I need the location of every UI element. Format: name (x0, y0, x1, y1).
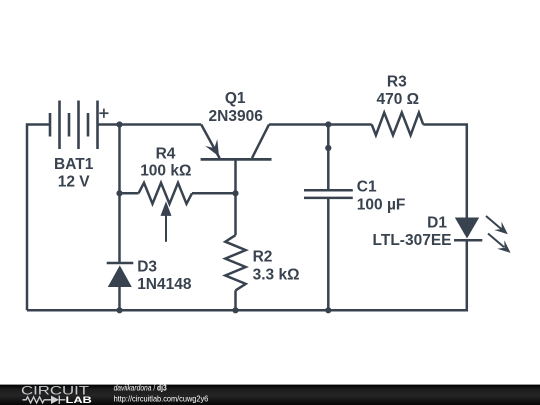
wire C1 bottom lead (327, 198, 330, 310)
svg-text:470 Ω: 470 Ω (376, 91, 419, 108)
svg-text:3.3 kΩ: 3.3 kΩ (253, 267, 300, 284)
svg-text:12 V: 12 V (58, 174, 91, 191)
svg-text:1N4148: 1N4148 (137, 276, 192, 293)
svg-text:R3: R3 (387, 73, 407, 90)
resistor R4 body (139, 183, 193, 204)
svg-text:R4: R4 (156, 146, 176, 163)
svg-text:C1: C1 (357, 179, 377, 196)
wire D3 anode to bottom rail (118, 287, 121, 310)
svg-text:100 kΩ: 100 kΩ (140, 162, 191, 179)
wire C1 top lead (327, 125, 330, 191)
wire battery positive to Q1 emitter (98, 123, 202, 126)
battery plus sign (99, 109, 108, 118)
node junction D3 bottom (116, 307, 122, 313)
wire junction down to R4/D3 node (118, 125, 121, 194)
node dot on C1 stem (325, 145, 331, 151)
svg-text:LAB: LAB (66, 395, 93, 405)
potentiometer wiper arrow R4 (161, 201, 172, 242)
svg-text:daviikardona / dj3: daviikardona / dj3 (114, 383, 167, 393)
svg-text:100 µF: 100 µF (357, 197, 406, 214)
node junction C1 top (325, 121, 331, 127)
node junction R2 bottom (232, 307, 238, 313)
wire left side (battery negative to bottom rail) (27, 125, 50, 311)
capacitor C1 (304, 190, 353, 198)
battery BAT1 (50, 101, 98, 150)
footer bar (0, 385, 540, 405)
wire Q1 collector to R3 (269, 123, 372, 126)
svg-text:BAT1: BAT1 (54, 156, 94, 173)
node junction base/R4/R2 (232, 190, 238, 196)
resistor R2 body (225, 235, 245, 290)
wire R3 to top-right corner and down to LED (423, 125, 467, 218)
wire R2 top lead (234, 193, 237, 235)
LED D1 (454, 218, 482, 241)
wire D3 cathode up to node (118, 193, 121, 263)
LED light arrow 1 (486, 216, 508, 234)
resistor R3 body (372, 113, 424, 136)
node junction R4 left (116, 190, 122, 196)
svg-text:http://circuitlab.com/cuwg2y6: http://circuitlab.com/cuwg2y6 (114, 393, 209, 403)
wire R4 left lead (120, 192, 139, 195)
svg-text:Q1: Q1 (225, 90, 246, 107)
wire R4 right lead (192, 192, 236, 195)
wire Q1 base down to node (234, 159, 237, 193)
diode D3 (107, 263, 134, 287)
svg-text:LTL-307EE: LTL-307EE (373, 232, 452, 249)
transistor Q1 (201, 125, 272, 160)
CircuitLab logo squiggle (resistor + diode) (23, 396, 66, 404)
svg-text:2N3906: 2N3906 (209, 108, 264, 125)
LED light arrow 2 (488, 234, 511, 253)
svg-text:D3: D3 (137, 259, 157, 276)
wire R2 bottom lead (234, 290, 237, 310)
node junction C1 bottom (325, 307, 331, 313)
svg-text:R2: R2 (253, 249, 273, 266)
wire LED cathode to bottom-right corner (27, 240, 467, 310)
svg-text:D1: D1 (427, 214, 447, 231)
node junction top-left (116, 121, 122, 127)
